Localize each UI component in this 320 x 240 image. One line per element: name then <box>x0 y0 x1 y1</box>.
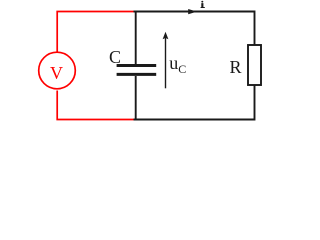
voltage arrow u_C line <box>165 38 167 89</box>
wire: capacitor bottom stem <box>135 76 137 120</box>
resistor R box <box>248 45 261 85</box>
wire: top black segment node A to resistor <box>134 12 255 46</box>
svg-text:V: V <box>50 63 63 83</box>
wire: bottom black segment resistor to node B <box>134 85 255 120</box>
voltage source V circle <box>39 52 76 89</box>
wire: capacitor top stem <box>135 12 137 65</box>
voltage arrow u_C head <box>163 32 169 40</box>
svg-text:R: R <box>230 57 242 77</box>
capacitor C top plate <box>117 64 157 67</box>
svg-text:C: C <box>109 47 121 67</box>
wire: bottom red segment from node B to source <box>57 91 134 120</box>
current arrow head on top wire <box>188 9 197 14</box>
capacitor C bottom plate <box>117 73 157 76</box>
svg-text:uC: uC <box>169 53 186 76</box>
wire: top red segment from source to node A <box>57 12 134 53</box>
current label i <box>201 1 205 8</box>
